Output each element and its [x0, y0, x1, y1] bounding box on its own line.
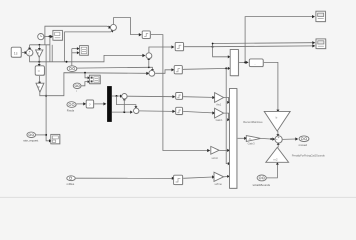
wire clock to relay block	[44, 35, 53, 38]
svg-text:moved: moved	[299, 143, 308, 147]
window bottom edge	[0, 196, 356, 198]
goto oval O1	[67, 66, 77, 72]
svg-text:..: ..	[254, 61, 256, 65]
wire BT1 apex to C5 top	[276, 131, 279, 137]
svg-text:v: v	[37, 51, 39, 55]
svg-text:Gain1: Gain1	[216, 118, 223, 122]
wire into gain G1 top	[38, 45, 41, 51]
goto oval O2	[73, 83, 81, 93]
relay/scope block BR	[53, 30, 63, 41]
wire from O1 to C3 bottom and C4 top	[76, 58, 154, 72]
sum C3	[146, 53, 152, 59]
wire C2 to B9	[139, 110, 176, 113]
display D1	[51, 134, 61, 144]
sum C4	[149, 70, 155, 76]
wire frame to sum2 left	[45, 26, 112, 45]
svg-text:Gain3: Gain3	[248, 142, 255, 146]
wire vertical into goto O1 and taps to bus BC1	[66, 47, 80, 65]
bus block B5b	[89, 75, 101, 84]
wire S1 bottom long run to C3	[30, 54, 146, 63]
wire O7 up into BT2 base	[266, 162, 279, 178]
big gain BT2 up	[266, 147, 289, 162]
wire B8 to T1	[183, 96, 216, 99]
wire C1 to B8	[127, 95, 175, 98]
svg-text:mRius: mRius	[67, 182, 75, 186]
wire sum2 to B3	[114, 18, 142, 37]
wire demux out2 to C2 and branch to C1 bottom	[112, 98, 133, 114]
svg-text:Aw1: Aw1	[216, 103, 222, 107]
big gain BT1 down	[264, 111, 290, 131]
block Q	[86, 100, 94, 109]
svg-text:m2: m2	[273, 157, 277, 161]
label RecentMainGue	[243, 120, 263, 124]
gain G1 down	[36, 50, 43, 57]
wire demux out1 to C1 and branch to C2 top	[112, 95, 137, 109]
sum C1	[122, 94, 128, 100]
wire goto rate_request to D1 net	[35, 134, 46, 136]
wire BT2 apex to C5 bottom	[277, 142, 280, 147]
wire branch into bus B5b input1	[85, 73, 90, 80]
sum S1	[26, 49, 33, 56]
svg-text:-K-: -K-	[248, 137, 252, 141]
wire B5m to rect2 input2 and down to rect3 input4	[182, 67, 230, 165]
svg-text:Rmds: Rmds	[67, 108, 75, 112]
block B8	[176, 93, 184, 101]
wire B9 to T2	[183, 111, 216, 114]
wire integrator block1 to sum S1	[21, 51, 27, 54]
gain G3	[246, 136, 260, 146]
wire C5 to goto moved	[282, 137, 298, 140]
integrator block 1/s	[11, 47, 22, 58]
svg-text:1s: 1s	[14, 51, 18, 55]
sum2	[110, 24, 117, 31]
goto oval O7 wCat1Bounds	[253, 175, 271, 187]
wire Gain2 to rect3 input3	[219, 149, 230, 152]
gain TU	[214, 172, 224, 186]
wire rect2 output to SB and up to scope OP1	[238, 15, 315, 64]
goto oval O5	[67, 176, 76, 186]
gain T2	[215, 108, 224, 122]
wire into sum S1 top	[28, 45, 31, 50]
gain T1	[215, 93, 224, 107]
block B9	[176, 107, 184, 115]
scope OP2	[316, 39, 326, 49]
label PenaltyForFixingCat2Sounds	[292, 153, 326, 157]
wire O5 to B10	[75, 177, 175, 180]
block B4	[175, 42, 184, 51]
sum C5	[275, 136, 283, 144]
wire B4 output three-way	[184, 41, 316, 58]
wire TU to rect3 input5	[224, 175, 230, 178]
svg-text:u2fme: u2fme	[215, 182, 223, 186]
bus selector BC1	[80, 46, 89, 56]
svg-text:PenaltyForFixingCat2Sounds: PenaltyForFixingCat2Sounds	[292, 153, 326, 157]
wire long vertical to display D1	[45, 45, 52, 143]
goto oval O3 Rmds	[67, 102, 77, 113]
svg-text:v: v	[38, 85, 40, 89]
wire horizontal feed line y=44.8	[30, 44, 50, 46]
svg-text:u2oct: u2oct	[212, 156, 219, 160]
wire O3 to Q	[76, 102, 86, 105]
gain G2 down	[36, 83, 44, 92]
goto oval O4 rate_request	[23, 132, 38, 142]
block SB	[249, 59, 264, 67]
svg-text:wCat1Bounds: wCat1Bounds	[253, 183, 271, 187]
svg-text:r: r	[76, 89, 77, 93]
wire T2 to rect3 input2	[224, 113, 230, 121]
svg-text:RecentMainGue: RecentMainGue	[243, 120, 263, 124]
scope OP1	[316, 11, 326, 22]
wire C4 to B5m	[155, 68, 175, 73]
wire B10 to TU	[183, 175, 215, 178]
bus creator rect2	[230, 50, 239, 77]
clock CL	[38, 34, 45, 41]
wire branch down from clock net to y44.8 bus	[50, 36, 52, 61]
wire Q to demux M1	[94, 102, 107, 105]
block B3	[142, 31, 151, 39]
block B10	[174, 175, 184, 185]
wire SB to big triangle BT1	[263, 62, 279, 112]
demux M1 black bar	[107, 86, 112, 122]
svg-text:?: ?	[89, 103, 91, 107]
svg-text:rate_request: rate_request	[23, 138, 38, 142]
block B6	[35, 66, 45, 76]
wire C3 top to B4	[149, 45, 175, 52]
wire B3 down to Gain2	[150, 35, 210, 153]
wire G3 to C5	[261, 138, 275, 141]
wire rect3 output to G3	[237, 137, 247, 140]
goto oval O6 moved	[299, 136, 310, 147]
sum C2	[134, 108, 140, 114]
wire T1 to rect3 input1	[224, 98, 230, 104]
wire B6 to G2	[38, 75, 41, 84]
mux rect3	[230, 89, 238, 190]
wire G1 to B6	[38, 57, 41, 66]
gain Gain2	[211, 146, 219, 159]
block B5m	[174, 66, 183, 75]
wire goto O2 to B5b input2	[81, 80, 90, 86]
wire G2 output feedback to C4	[40, 72, 150, 96]
wire branch up to sum2 bottom	[65, 30, 115, 62]
